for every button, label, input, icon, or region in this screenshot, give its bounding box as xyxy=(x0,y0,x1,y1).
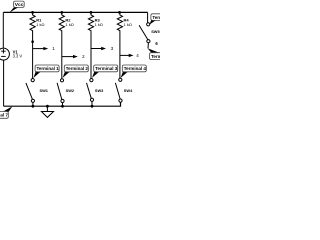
wire V1 minus down to bottom rail xyxy=(3,60,5,106)
terminal callout Terminal 2 xyxy=(63,65,89,78)
wire column 4 down to SW4 xyxy=(119,41,121,78)
wire column 3 down to SW3 xyxy=(90,41,92,78)
svg-text:1 kΩ: 1 kΩ xyxy=(95,22,103,27)
junction dot SW2 bottom xyxy=(61,105,64,108)
node junction dot R4 top xyxy=(118,11,121,14)
terminal callout Terminal 6 (cut off at right edge) xyxy=(148,48,174,59)
svg-text:SW1: SW1 xyxy=(40,88,49,93)
terminal callout Terminal 3 xyxy=(92,65,118,78)
resistor R3 1 kOhm xyxy=(88,12,103,41)
svg-text:SW3: SW3 xyxy=(95,88,104,93)
switch SW4 xyxy=(115,78,133,102)
node junction dot R1 top xyxy=(31,11,34,14)
resistor R4 1 kOhm xyxy=(117,12,132,41)
terminal callout Terminal 4 xyxy=(121,65,147,78)
junction dot node 1 xyxy=(31,40,34,43)
svg-text:1 kΩ: 1 kΩ xyxy=(36,22,44,27)
wire top rail corner down to SW5 xyxy=(147,12,149,22)
svg-text:Terminal 7: Terminal 7 xyxy=(0,113,8,118)
wire column 1 down to SW1 xyxy=(32,41,34,78)
ground xyxy=(41,106,53,117)
switch SW1 xyxy=(26,79,49,107)
svg-text:Terminal 2: Terminal 2 xyxy=(66,66,89,71)
terminal callout Terminal 1 xyxy=(33,65,59,78)
node junction dot R3 top xyxy=(90,11,93,14)
svg-text:SW4: SW4 xyxy=(124,88,133,93)
wire bottom rail xyxy=(4,102,121,106)
svg-text:3.3 V: 3.3 V xyxy=(13,54,23,59)
wire top rail Vcc xyxy=(3,11,147,13)
resistor R1 1 kOhm xyxy=(30,12,45,41)
resistor R2 1 kOhm xyxy=(59,12,74,41)
node junction dot R2 top xyxy=(60,11,63,14)
svg-text:SW2: SW2 xyxy=(66,88,75,93)
voltage source V1 3.3 V xyxy=(0,48,22,60)
node 1 label arrow xyxy=(33,46,56,51)
power label Vcc callout xyxy=(9,1,24,13)
svg-text:1 kΩ: 1 kΩ xyxy=(65,22,73,27)
node 3 label arrow xyxy=(91,46,114,51)
junction dot SW3 bottom xyxy=(91,105,94,108)
switch SW2 xyxy=(57,79,75,106)
svg-text:Terminal 4: Terminal 4 xyxy=(124,66,147,71)
svg-text:Vcc: Vcc xyxy=(15,2,24,8)
svg-text:Terminal 6: Terminal 6 xyxy=(151,54,160,59)
ground junction dot xyxy=(46,105,49,108)
svg-text:Terminal 1: Terminal 1 xyxy=(37,66,60,71)
svg-text:1 kΩ: 1 kΩ xyxy=(124,22,132,27)
switch SW3 xyxy=(87,79,105,107)
terminal callout Terminal 5 (cut off at right edge) xyxy=(149,14,175,25)
switch SW5 xyxy=(139,23,160,49)
svg-text:Terminal 5: Terminal 5 xyxy=(152,15,160,20)
svg-text:SW5: SW5 xyxy=(151,29,160,34)
junction dot SW1 bottom xyxy=(32,105,35,108)
node 2 label arrow xyxy=(62,54,85,59)
svg-text:Terminal 3: Terminal 3 xyxy=(95,66,118,71)
wire left vertical from rail to V1 plus xyxy=(2,12,4,48)
terminal callout Terminal 7 (cut off at left edge) xyxy=(0,106,12,118)
wire column 2 down to SW2 xyxy=(61,41,63,79)
node 4 label arrow xyxy=(120,53,139,58)
